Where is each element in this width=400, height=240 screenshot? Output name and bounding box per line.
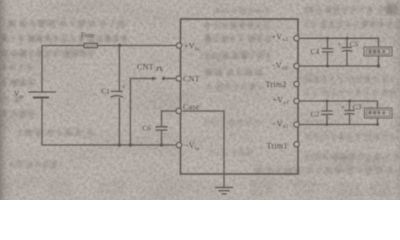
svg-text:Case: Case (183, 103, 200, 112)
svg-text:C3: C3 (353, 102, 362, 111)
svg-text:C4: C4 (311, 47, 320, 56)
svg-text:Trim2: Trim2 (266, 80, 287, 89)
svg-text:Vin: Vin (14, 89, 24, 100)
svg-text:+Vo1: +Vo1 (273, 96, 290, 107)
svg-text:Fuse: Fuse (81, 31, 94, 39)
svg-text:C6: C6 (143, 125, 152, 133)
svg-text:+Vo2: +Vo2 (272, 33, 289, 44)
svg-text:CNT: CNT (137, 63, 154, 72)
svg-text:Trim1: Trim1 (267, 142, 288, 151)
svg-text:−Vo2: −Vo2 (271, 61, 288, 72)
svg-text:C2: C2 (311, 110, 320, 119)
svg-text:C1: C1 (102, 88, 111, 96)
svg-text:−Vin: −Vin (184, 141, 200, 152)
svg-text:+Vin: +Vin (184, 42, 200, 53)
svg-text:CNT: CNT (183, 74, 200, 83)
svg-text:+: + (341, 104, 345, 112)
svg-text:−Vo1: −Vo1 (272, 119, 289, 130)
svg-text:+: + (338, 41, 342, 49)
svg-text:C5: C5 (350, 39, 359, 48)
svg-text:+: + (122, 83, 126, 91)
